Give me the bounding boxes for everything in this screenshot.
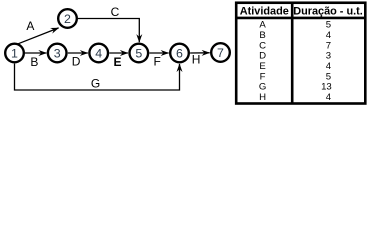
svg-text:H: H xyxy=(192,53,201,67)
svg-text:5: 5 xyxy=(135,47,142,61)
svg-text:5: 5 xyxy=(326,71,331,82)
svg-text:7: 7 xyxy=(217,46,224,60)
svg-text:B: B xyxy=(30,55,38,69)
svg-text:Duração - u.t.: Duração - u.t. xyxy=(293,6,363,18)
svg-text:D: D xyxy=(259,51,266,62)
svg-text:3: 3 xyxy=(54,47,61,61)
svg-text:2: 2 xyxy=(64,12,71,26)
svg-text:Atividade: Atividade xyxy=(240,6,289,18)
svg-text:4: 4 xyxy=(95,47,102,61)
svg-text:4: 4 xyxy=(326,92,332,103)
svg-text:F: F xyxy=(154,55,161,69)
svg-text:1: 1 xyxy=(11,47,18,61)
svg-text:B: B xyxy=(259,30,265,41)
svg-text:6: 6 xyxy=(176,47,183,61)
svg-text:C: C xyxy=(111,5,120,19)
svg-text:E: E xyxy=(113,55,121,69)
svg-text:D: D xyxy=(72,55,81,69)
svg-text:H: H xyxy=(259,92,266,103)
svg-text:4: 4 xyxy=(326,30,332,41)
svg-text:F: F xyxy=(260,71,266,82)
svg-text:A: A xyxy=(26,19,34,33)
svg-text:3: 3 xyxy=(326,51,331,62)
svg-text:G: G xyxy=(91,76,100,90)
